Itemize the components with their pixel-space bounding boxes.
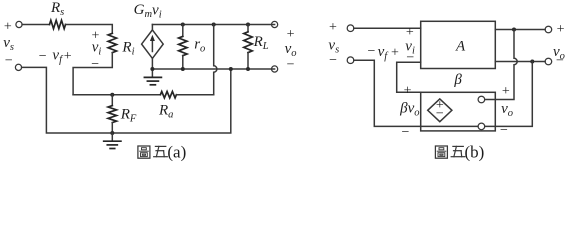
wire feedback row (Ra wire)	[73, 94, 160, 96]
svg-text:RL: RL	[253, 34, 269, 52]
svg-text:vf: vf	[378, 44, 390, 62]
svg-text:+: +	[404, 84, 412, 99]
wire bottom rail (output side)	[152, 68, 274, 70]
svg-text:β: β	[453, 72, 462, 88]
caption 圖 (b) drawn glyph	[435, 146, 447, 158]
svg-text:Rs: Rs	[50, 0, 64, 18]
svg-text:−: −	[368, 44, 376, 59]
svg-text:−: −	[287, 57, 295, 72]
svg-text:+: +	[64, 49, 72, 64]
resistor ro	[182, 25, 184, 37]
svg-text:(b): (b)	[465, 142, 485, 161]
svg-text:+: +	[329, 20, 337, 35]
wire top rail (output side)	[152, 24, 274, 26]
svg-text:+: +	[4, 19, 12, 34]
wire sense lower	[485, 62, 532, 127]
svg-text:−: −	[500, 123, 508, 138]
terminal circle top-right (a)	[272, 21, 278, 27]
svg-text:+: +	[557, 22, 565, 37]
wire A lower input to beta network	[397, 62, 421, 92]
svg-text:Gmvi: Gmvi	[134, 2, 162, 21]
svg-text:vf: vf	[52, 48, 64, 66]
resistor RF	[111, 95, 113, 106]
svg-text:+: +	[391, 45, 399, 60]
wire A lower output	[495, 61, 545, 63]
node dot RF bottom	[110, 131, 114, 135]
wire top-left to Rs	[22, 24, 49, 26]
amplifier block A	[421, 21, 496, 68]
node dot sense lower	[530, 60, 534, 64]
resistor Rs	[50, 20, 66, 28]
svg-text:vi: vi	[92, 40, 102, 58]
terminal circle top-left (a)	[16, 21, 22, 27]
wire vs+ to box A	[354, 27, 421, 29]
resistor Ri	[108, 33, 116, 52]
wire Ra to hop branch	[176, 94, 213, 96]
ground (under diamond)	[151, 69, 153, 77]
wire inside feedback box (lower)	[421, 125, 478, 127]
svg-text:−: −	[556, 54, 564, 69]
svg-text:−: −	[406, 50, 414, 65]
wire A upper output	[495, 29, 545, 31]
svg-text:+: +	[287, 27, 295, 42]
wire vs- to beta network	[354, 60, 421, 126]
svg-text:−: −	[401, 125, 409, 140]
wire vs- to feedback loop	[22, 67, 231, 133]
sense terminal circle lower	[478, 123, 485, 130]
svg-text:Ra: Ra	[158, 103, 173, 121]
svg-text:RF: RF	[120, 107, 137, 125]
wire Ra branch with hop over bottom rail	[214, 25, 217, 95]
caption 圖 (a) drawn glyph	[138, 146, 150, 158]
node dot RL bottom	[246, 67, 250, 71]
svg-text:−: −	[91, 57, 99, 72]
svg-text:vo: vo	[501, 101, 513, 119]
svg-text:Ri: Ri	[121, 40, 134, 58]
wire Rs to Ri top	[66, 25, 113, 34]
node dot ro top	[181, 23, 185, 27]
svg-text:(a): (a)	[167, 142, 186, 161]
node dot Ra branch top	[212, 23, 216, 27]
wire diamond top stem	[151, 25, 153, 30]
wire diamond bottom stem	[151, 58, 153, 69]
svg-text:−: −	[329, 53, 337, 68]
svg-text:βvo: βvo	[399, 101, 419, 119]
terminal circle bottom-left (a)	[15, 64, 21, 70]
node dot diamond bottom	[150, 67, 154, 71]
terminal circle bottom-left (b)	[347, 57, 354, 64]
sense terminal circle upper	[478, 96, 485, 103]
feedback network box	[421, 92, 496, 131]
svg-text:+: +	[502, 84, 510, 99]
terminal circle bottom-right (b)	[545, 58, 552, 65]
node dot RL top	[246, 23, 250, 27]
ground (under RF)	[111, 133, 113, 141]
resistor Ra	[160, 92, 176, 98]
svg-text:−: −	[5, 54, 13, 69]
terminal circle top-left (b)	[347, 25, 354, 32]
svg-text:ro: ro	[194, 37, 205, 55]
resistor RL	[247, 25, 249, 32]
wire Ri bottom to vf+ stub	[73, 53, 112, 95]
svg-text:−: −	[436, 107, 444, 122]
caption 五 (a) drawn glyph	[154, 146, 168, 156]
terminal circle top-right (b)	[545, 26, 552, 33]
svg-text:vs: vs	[3, 35, 14, 53]
node dot ro bottom	[181, 67, 185, 71]
dependent current source Gm vi (diamond)	[142, 30, 164, 59]
node dot RF top	[110, 93, 114, 97]
wire sense upper with hop	[485, 30, 517, 100]
svg-text:A: A	[455, 39, 466, 55]
node dot loop-up junction	[229, 67, 233, 71]
dependent source beta vo (diamond)	[428, 99, 452, 122]
caption 五 (b) drawn glyph	[451, 146, 465, 156]
arrow inside source	[151, 40, 153, 52]
svg-text:−: −	[39, 49, 47, 64]
node dot sense upper	[512, 28, 516, 32]
terminal circle bottom-right (a)	[272, 66, 278, 72]
